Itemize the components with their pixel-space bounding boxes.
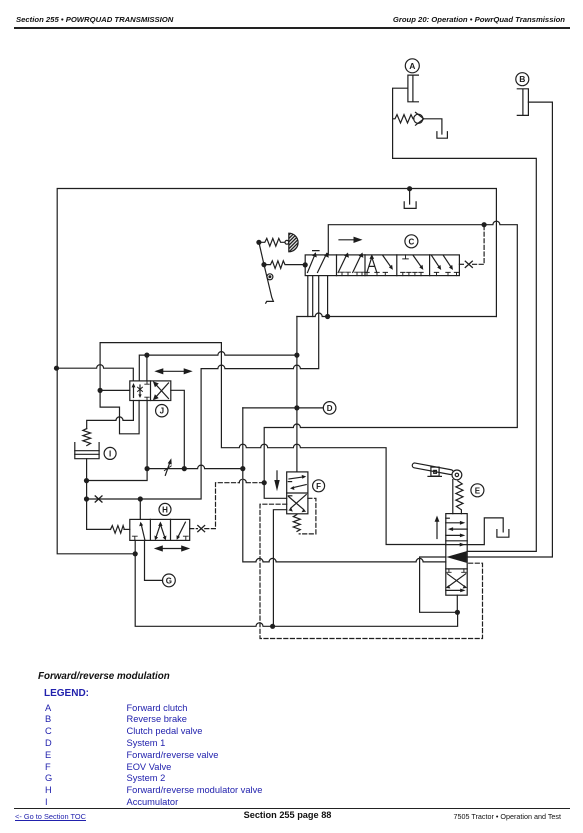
wire valve J top ports to x=296.9 at y=355.1, hop over x=221.4	[139, 352, 297, 381]
junction bus / valve J bottom port	[145, 466, 150, 471]
valve C cell5	[432, 256, 459, 276]
valve J left cell symbols	[132, 381, 150, 401]
direction arrow left of valve E	[435, 516, 440, 539]
valve E lever handle	[412, 463, 462, 480]
wire pressure line: valve C top port, y=224.7 across, down x=517.3, left y=427.5, down x=264.2 to valve F left port; hops over x=496.4 and x=296.9	[264, 221, 517, 498]
svg-text:E: E	[475, 486, 481, 495]
node C circle	[405, 235, 418, 248]
valve J right cell cross	[153, 381, 169, 400]
valve H left spring	[111, 526, 125, 534]
wire pilot: valve C bottom port 3 down x=318.7, left y=368.6 (hops x=296.9, x=221.4), down x=201.1, left y=499 to x=86.5	[87, 276, 319, 499]
orifice x on valve H pilot	[198, 526, 205, 532]
double arrow below valve H	[154, 545, 190, 551]
wire valve E bottom port stub	[456, 595, 458, 612]
wire x=242.8 down to y=561.9, right to valve E left tick (hops x=259.5,x=272.6,x=419.6)	[243, 408, 446, 562]
accumulator I: cylinder and piston	[75, 443, 99, 459]
junction valve H top port	[138, 496, 143, 501]
node G circle	[163, 574, 176, 587]
header right	[393, 15, 565, 24]
wire check valve to drain	[424, 119, 442, 134]
wire valve H top port x=140.3	[139, 499, 141, 519]
svg-text:C: C	[409, 237, 415, 246]
wire valve J bottom port 3 down to bus and left y=480.5 to x=86.5	[87, 401, 148, 481]
dashed pilot: valve C right pilot to y=224.7 junction	[459, 225, 484, 265]
node A circle	[405, 59, 419, 73]
wire left edge junction to valve J top-left port, hop over x=100.1	[57, 365, 134, 381]
direction arrow above valve C	[339, 237, 363, 243]
wire A-line: clutch A down x=392.6, right y=158.4, down x=536.3 to valve E right port	[393, 88, 537, 551]
wire top-line drain stub	[409, 189, 411, 204]
wire valve J right port to bus y=468.6	[171, 390, 185, 468]
spring (check valve relief) at A	[393, 115, 414, 123]
valve F spring below	[293, 515, 300, 532]
valve F body	[287, 472, 308, 514]
valve H body	[130, 519, 190, 540]
valve F top cell arrows	[288, 475, 306, 490]
junction bus / valve J right port	[182, 466, 187, 471]
wire valve F bottom-left port down to y=626.3 line	[273, 510, 286, 627]
wire valve H bottom port 2 to node G	[145, 540, 163, 580]
wire valve C bottom port 1 to y=316.5	[307, 276, 309, 317]
footer rule	[14, 808, 570, 809]
valve F bottom cell cross	[288, 495, 306, 513]
dashed pilot: valve H right pilot up to junction on x=264.2 line, hop over x=242.8	[190, 479, 263, 528]
node J circle	[156, 405, 168, 417]
node D circle	[323, 402, 336, 415]
valve F solenoid down arrow	[274, 471, 279, 491]
double arrow above valve J	[154, 368, 192, 374]
pedal pad (hatched)	[285, 233, 298, 252]
pedal spring lower to valve C	[264, 261, 305, 269]
valve C cell2 flow arrows	[338, 253, 364, 276]
valve E lower cell cross	[446, 569, 467, 592]
wire valve J top port 2 stub	[146, 355, 148, 381]
wire accumulator output x=86.6 down to H spring level	[87, 459, 111, 530]
check valve at A	[414, 112, 424, 125]
junction return line / valve F port	[270, 624, 275, 629]
legend title	[38, 671, 170, 682]
junction left edge / valve J feed	[54, 366, 59, 371]
wire vertical x=296.9 from C-box bottom down to valve F top port	[296, 317, 298, 472]
junction valve C inlet / pedal spring	[303, 262, 308, 267]
valve C cell1 flow arrows	[308, 251, 329, 273]
valve C cell3 lambda and arrow	[365, 254, 393, 275]
junction accumulator line	[84, 478, 89, 483]
orifice x on line y=499	[95, 496, 102, 502]
node H circle	[159, 503, 171, 515]
valve E through line y=544.6 with arrow	[446, 543, 467, 547]
dashed pilot: valve F right pilot loop under spring	[299, 498, 316, 534]
valve H right cell	[177, 522, 189, 540]
orifice x on valve C pilot	[465, 261, 472, 267]
valve C cell4	[401, 255, 424, 276]
svg-text:G: G	[166, 576, 172, 585]
svg-text:H: H	[162, 505, 168, 514]
valve E lever wire	[452, 480, 454, 514]
junction system-1 line / riser	[294, 405, 299, 410]
junction valve J top line / riser	[294, 353, 299, 358]
valve C body	[305, 255, 459, 276]
wire main loop: top line, right edge of C-box, left outer edge, bottom edge	[57, 189, 496, 554]
variable orifice arrow on bus y=468.6	[164, 458, 171, 475]
junction pressure line / valve C pilot	[482, 222, 487, 227]
junction bus / system-1 drop	[240, 466, 245, 471]
valve E big left arrow	[446, 551, 467, 563]
wire accumulator top line y=420.4 to valve J bottom port, hop over x=119.5	[87, 401, 134, 429]
svg-text:B: B	[519, 74, 525, 84]
clutch A symbol	[408, 75, 419, 102]
junction outer bottom line / valve H port	[133, 551, 138, 556]
junction valve J top port 2	[144, 353, 149, 358]
svg-text:F: F	[316, 482, 321, 491]
wire valve C bottom port 2 to y=316.5	[312, 276, 314, 317]
pedal spring upper	[259, 238, 285, 246]
svg-text:I: I	[109, 449, 111, 458]
wire valve C bottom port 4 to y=316.5 junction	[327, 276, 329, 317]
junction orifice line	[84, 496, 89, 501]
accumulator I: spring	[83, 429, 91, 446]
pedal assembly for valve C	[259, 242, 274, 303]
tank (drain) at valve E	[497, 530, 509, 538]
node B circle	[516, 73, 529, 86]
header rule	[14, 27, 570, 28]
wire valve E left arrow port to bottom port loop	[420, 557, 458, 612]
valve E upper cell arrows	[446, 518, 467, 537]
dashed pilot: valve F left pilot, down x=260, right y=638.5, up x=482.5 to valve E right pilot	[260, 504, 483, 638]
svg-text:A: A	[409, 61, 415, 71]
junction pedal upper pivot	[256, 240, 261, 245]
wire System-1 line y=407.9 from x=242.8 to node D circle	[243, 407, 323, 409]
wire junction x=100.1 to valve J left port	[100, 389, 130, 391]
wire bus x=221.4 down to y=447.7, right (hops x=242.8,264.2,296.9), corner x=386.1 down, right to valve E left port	[221, 343, 445, 545]
brake B symbol	[517, 89, 528, 116]
valve H left cell	[132, 522, 145, 541]
wire bus y=468.6 from x=147.1 to x=242.8, hop over x=201.1	[147, 465, 243, 468]
node F circle	[313, 480, 325, 492]
wire B-line: brake B right, down x=552.4 to valve E big-arrow port	[467, 102, 552, 557]
wire valve H bottom port 1 down x=135.2 to y=626.3, right to x=457.6, up to E-bottom junction; hop over dashed x=260	[135, 540, 457, 626]
node I circle	[104, 447, 116, 459]
junction left riser / valve J left port	[98, 388, 103, 393]
junction valve C port 4 / return line	[325, 314, 330, 319]
node E circle	[471, 484, 484, 497]
valve H middle cell lambda	[154, 522, 166, 541]
junction top line / drain stub	[407, 186, 412, 191]
svg-text:J: J	[160, 407, 164, 416]
wire left riser x=100.1 with staircase to valve J bottom port	[100, 343, 139, 434]
valve E body	[446, 514, 467, 596]
tank (drain) below top line	[404, 202, 416, 209]
svg-text:D: D	[327, 404, 333, 413]
valve E spring	[456, 481, 463, 514]
tank (drain) at check valve	[437, 132, 448, 139]
junction valve E bottom port	[455, 610, 460, 615]
junction valve H pilot / valve F feed	[262, 480, 267, 485]
valve J body	[130, 381, 171, 401]
wire valve E tank line y=544.6 out to drain	[467, 518, 503, 545]
wire bottom of C-box y=316.5 with hop over x=318.7, from x=296.9 to right edge	[297, 313, 497, 317]
header left	[16, 15, 173, 24]
wire J-area top line y=342.6	[100, 342, 221, 344]
wire H spring to valve H left edge	[124, 528, 130, 530]
junction pedal lower pivot	[261, 262, 266, 267]
